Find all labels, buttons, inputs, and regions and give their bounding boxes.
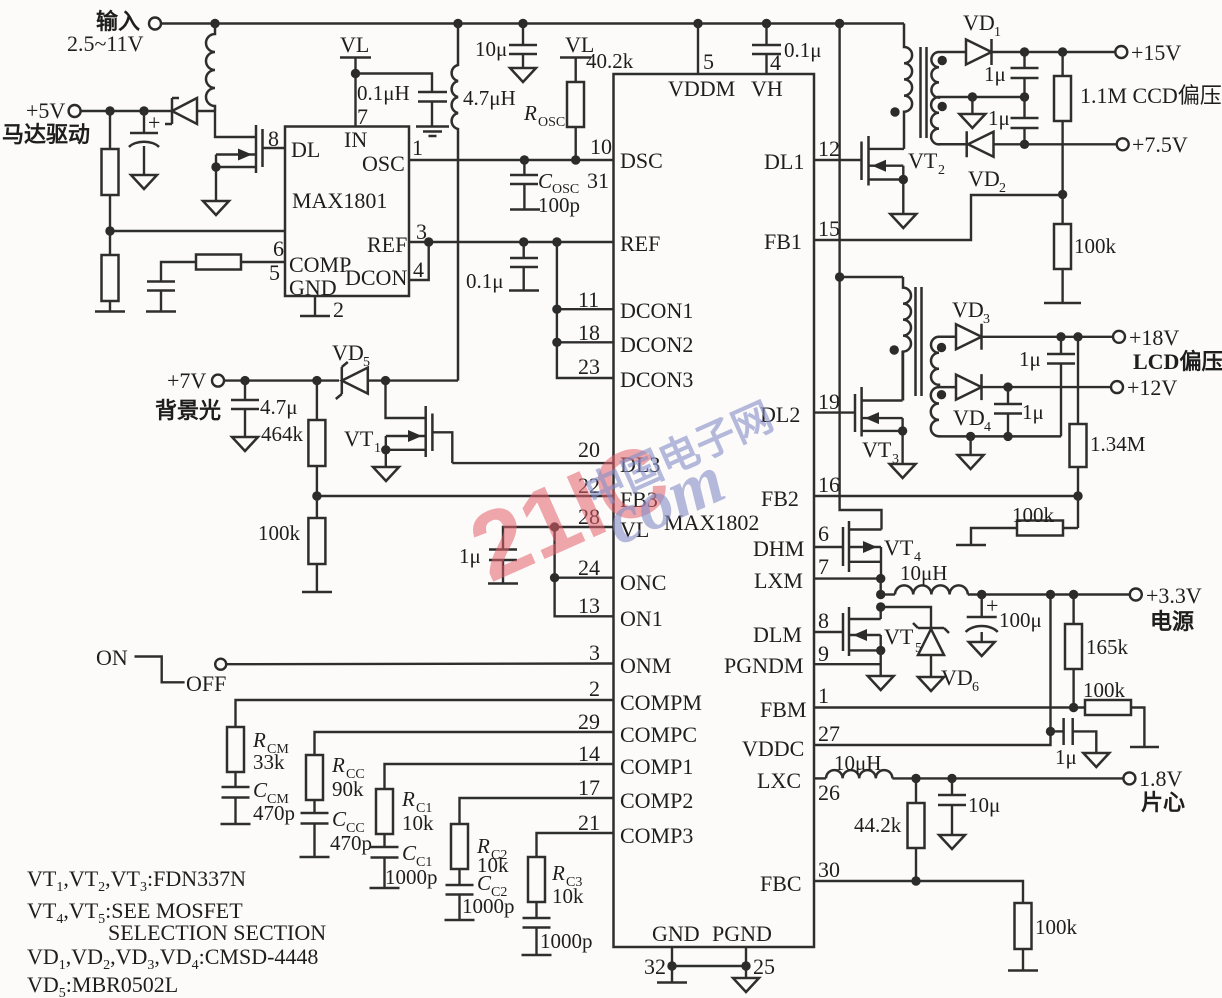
right pin labels xyxy=(724,149,806,896)
svg-text:19: 19 xyxy=(818,389,840,414)
ground (arrow, VT5/PGNDM) xyxy=(868,676,894,690)
transformer T2 secondary upper xyxy=(931,337,956,387)
transistor VT4 xyxy=(814,521,921,579)
svg-text:DCON1: DCON1 xyxy=(620,298,693,323)
capacitor 0.1uH (VL bypass) xyxy=(356,74,448,127)
wire COMPM line xyxy=(236,700,614,727)
pin 4 wire DCON loop xyxy=(409,242,429,280)
svg-text:4: 4 xyxy=(984,420,991,435)
svg-text:VT: VT xyxy=(862,437,892,462)
ground (arrow, VT3) xyxy=(890,464,916,478)
capacitor C+ (electrolytic on +5V) xyxy=(129,110,160,173)
transistor VT2 xyxy=(814,136,945,214)
svg-text:1μ: 1μ xyxy=(1055,745,1077,769)
resistor RC2 10k xyxy=(451,824,509,885)
svg-text:1.1M CCD偏压: 1.1M CCD偏压 xyxy=(1080,83,1222,108)
svg-text:18: 18 xyxy=(578,320,600,345)
svg-text:VL: VL xyxy=(340,32,369,57)
svg-text:44.2k: 44.2k xyxy=(854,813,902,837)
svg-text:33k: 33k xyxy=(253,750,285,774)
wire DCON tie line xyxy=(557,242,614,378)
resistor Rosc 40.2k xyxy=(523,49,634,160)
svg-text:23: 23 xyxy=(578,354,600,379)
svg-text:DSC: DSC xyxy=(620,148,663,173)
svg-text:1: 1 xyxy=(818,683,829,708)
ground (earth bars, 0.1uH cap) xyxy=(416,127,449,137)
wire DL3 line xyxy=(452,462,613,464)
transistor Q1 (motor boost MOSFET) xyxy=(211,111,285,201)
svg-text:7: 7 xyxy=(357,104,368,129)
svg-text:VH: VH xyxy=(751,76,783,101)
svg-text:SELECTION SECTION: SELECTION SECTION xyxy=(108,920,326,945)
svg-text:40.2k: 40.2k xyxy=(586,49,634,73)
svg-text:REF: REF xyxy=(367,232,407,257)
svg-text:100k: 100k xyxy=(1035,915,1078,939)
svg-text:GND: GND xyxy=(289,275,337,300)
svg-text:165k: 165k xyxy=(1086,635,1129,659)
svg-text:1.34M: 1.34M xyxy=(1090,432,1146,456)
svg-text:32: 32 xyxy=(644,954,666,979)
capacitor 10u (1.8V) xyxy=(938,774,1000,849)
svg-text:ONC: ONC xyxy=(620,570,666,595)
svg-text:10k: 10k xyxy=(402,811,434,835)
svg-text:100k: 100k xyxy=(1083,678,1126,702)
svg-text:PGNDM: PGNDM xyxy=(724,653,803,678)
wire OSC/DSC line xyxy=(409,159,614,161)
svg-text:ON1: ON1 xyxy=(620,606,663,631)
pin 2 wire GND xyxy=(300,296,344,322)
svg-text:R: R xyxy=(523,101,537,125)
transformer T2 primary xyxy=(840,277,911,401)
svg-text:4.7μH: 4.7μH xyxy=(463,86,516,110)
svg-text:30: 30 xyxy=(818,857,840,882)
svg-text:2: 2 xyxy=(938,163,945,178)
pin 25 wire PGND xyxy=(672,947,775,992)
diode VD2 xyxy=(939,131,1117,196)
wire +5V line xyxy=(81,110,172,112)
op-amp U1 MAX1801 box xyxy=(285,127,409,301)
svg-text:31: 31 xyxy=(587,168,609,193)
node 输入 input terminal xyxy=(67,9,161,56)
capacitor 10u (input bypass) xyxy=(475,24,537,69)
svg-text:VD: VD xyxy=(963,10,995,35)
inductor 10uH (LXM) xyxy=(876,561,1130,599)
svg-text:4.7μ: 4.7μ xyxy=(260,395,298,419)
svg-text:+5V: +5V xyxy=(26,98,65,123)
junction dots on top rail xyxy=(210,19,219,28)
svg-text:21: 21 xyxy=(578,810,600,835)
svg-text:15: 15 xyxy=(818,216,840,241)
svg-text:R: R xyxy=(401,787,415,811)
ground (arrow, VT1) xyxy=(373,467,399,481)
svg-text:2: 2 xyxy=(333,297,344,322)
capacitor CC2 1000p xyxy=(445,871,515,920)
ground (bar, R2) xyxy=(95,310,125,313)
svg-text:VD: VD xyxy=(953,405,985,430)
svg-text:1000p: 1000p xyxy=(462,894,515,918)
svg-text:COMP3: COMP3 xyxy=(620,823,693,848)
svg-text:27: 27 xyxy=(818,721,840,746)
capacitor 1u (lower) xyxy=(988,97,1039,149)
svg-text:COMP1: COMP1 xyxy=(620,754,693,779)
svg-text:6: 6 xyxy=(972,680,979,695)
svg-text:1μ: 1μ xyxy=(1022,400,1044,424)
svg-text:0.1μH: 0.1μH xyxy=(357,81,410,105)
capacitor C2 (COMP to gnd) xyxy=(147,282,175,312)
transformer T1 secondary upper xyxy=(931,52,1024,98)
svg-text:C: C xyxy=(332,807,347,831)
svg-text:26: 26 xyxy=(818,780,840,805)
wire VDDC line xyxy=(814,595,1051,746)
wire LXM line xyxy=(814,577,881,579)
diode VD4 xyxy=(953,374,1111,435)
switch ON/OFF xyxy=(96,645,226,696)
svg-text:FB1: FB1 xyxy=(764,229,802,254)
svg-text:+3.3V: +3.3V xyxy=(1146,583,1202,608)
svg-text:GND: GND xyxy=(652,921,700,946)
wire FB3 line xyxy=(317,495,614,497)
ground (arrow, VT2) xyxy=(890,214,916,228)
svg-text:4: 4 xyxy=(413,257,424,282)
watermark chinese xyxy=(579,395,780,517)
wire PGNDM line xyxy=(814,650,881,676)
diode VD3 xyxy=(952,297,1113,350)
svg-text:VD: VD xyxy=(952,297,984,322)
diode VD1 xyxy=(963,10,1115,65)
svg-text:VDDM: VDDM xyxy=(668,76,735,101)
svg-text:COMPC: COMPC xyxy=(620,722,697,747)
svg-text:17: 17 xyxy=(578,775,600,800)
svg-text:3: 3 xyxy=(983,312,990,327)
svg-text:0.1μ: 0.1μ xyxy=(466,269,504,293)
svg-text:3: 3 xyxy=(589,640,600,665)
svg-text:25: 25 xyxy=(753,954,775,979)
svg-text:2.5~11V: 2.5~11V xyxy=(67,31,144,56)
wire FB1 sense xyxy=(814,195,1063,240)
wire divider tap to MAX1801 pin6 xyxy=(110,230,285,232)
svg-text:13: 13 xyxy=(578,593,600,618)
ground (bar, 100k) xyxy=(302,591,332,594)
svg-text:IN: IN xyxy=(344,127,367,152)
svg-text:9: 9 xyxy=(818,641,829,666)
svg-text:1000p: 1000p xyxy=(385,865,438,889)
svg-text:COMPM: COMPM xyxy=(620,690,702,715)
resistor 1.34M xyxy=(1070,337,1146,496)
capacitor 1u (VL bypass) xyxy=(459,544,518,584)
transformer T2 secondary lower xyxy=(931,387,1061,436)
svg-text:10μ: 10μ xyxy=(475,37,507,61)
wire ONC/ON1 tie xyxy=(555,527,614,616)
svg-text:1: 1 xyxy=(994,25,1001,40)
resistor 44.2k xyxy=(854,774,925,881)
capacitor CCM 470p xyxy=(221,778,296,825)
svg-text:10μH: 10μH xyxy=(900,561,947,585)
transistor VT5 xyxy=(814,602,922,656)
svg-text:FBM: FBM xyxy=(760,697,806,722)
wire VH feed branch xyxy=(840,24,882,530)
svg-text:6: 6 xyxy=(273,236,284,261)
svg-text:12: 12 xyxy=(818,136,840,161)
svg-text:10μH: 10μH xyxy=(834,751,881,775)
svg-text:+: + xyxy=(986,593,998,618)
node +7V terminal xyxy=(155,368,224,423)
svg-text:100k: 100k xyxy=(258,521,301,545)
resistor 100k (FB3 lower) xyxy=(258,496,325,592)
svg-text:1.8V: 1.8V xyxy=(1139,766,1183,791)
resistor 1.1M xyxy=(1054,52,1222,194)
capacitor 4.7u xyxy=(231,381,298,451)
svg-text:LXM: LXM xyxy=(754,568,803,593)
svg-text:MAX1801: MAX1801 xyxy=(292,188,387,213)
resistor 165k xyxy=(1065,590,1129,708)
svg-text:ONM: ONM xyxy=(620,653,671,678)
svg-text:VD5:MBR0502L: VD5:MBR0502L xyxy=(27,972,178,998)
svg-text:DHM: DHM xyxy=(753,536,804,561)
transformer T1 primary xyxy=(890,24,912,149)
svg-text:电源: 电源 xyxy=(1150,609,1194,634)
svg-text:1μ: 1μ xyxy=(1019,347,1041,371)
svg-text:LXC: LXC xyxy=(757,768,801,793)
inductor 4.7uH xyxy=(452,24,516,381)
resistor 100k (FBM, horizontal) xyxy=(1083,678,1159,747)
svg-text:VT1,VT2,VT3:FDN337N: VT1,VT2,VT3:FDN337N xyxy=(27,866,246,895)
ground (arrow, 10u) xyxy=(510,68,536,82)
svg-text:1: 1 xyxy=(374,441,381,456)
capacitor 1u (+12V) xyxy=(994,387,1044,441)
svg-text:R: R xyxy=(551,861,565,885)
svg-text:470p: 470p xyxy=(253,801,295,825)
pin 4 wire VH + capacitor 0.1u xyxy=(752,24,822,76)
transistor VT1 xyxy=(344,381,452,467)
transformer T1 core xyxy=(921,47,927,138)
node +15V terminal xyxy=(1115,40,1181,65)
svg-text:VD1,VD2,VD3,VD4:CMSD-4448: VD1,VD2,VD3,VD4:CMSD-4448 xyxy=(27,944,318,973)
svg-text:16: 16 xyxy=(818,472,840,497)
node +5V terminal xyxy=(2,98,90,147)
inductor 10uH (LXC) xyxy=(814,751,1123,778)
svg-text:C: C xyxy=(402,841,417,865)
capacitor 100u (electrolytic +3.3V) xyxy=(966,590,1042,656)
resistor R3 (COMP series, horizontal) xyxy=(161,255,285,282)
svg-text:10k: 10k xyxy=(552,884,584,908)
resistor RCM 33k xyxy=(227,727,289,787)
svg-text:+7V: +7V xyxy=(167,368,206,393)
svg-text:+18V: +18V xyxy=(1129,325,1179,350)
node +7.5V terminal xyxy=(1117,132,1188,157)
resistor 100k (FBC) xyxy=(1008,903,1078,971)
svg-text:VT: VT xyxy=(884,535,914,560)
svg-text:片心: 片心 xyxy=(1141,790,1185,815)
node +12V terminal xyxy=(1111,375,1177,400)
svg-text:VT: VT xyxy=(908,148,938,173)
ground (arrow, T1 mid tap) xyxy=(959,92,985,128)
capacitor 0.1u (REF bypass) xyxy=(466,242,539,293)
op-amp U2 MAX1802 box xyxy=(614,74,815,947)
svg-text:VD: VD xyxy=(968,166,1000,191)
capacitor CC1 1000p xyxy=(370,841,438,889)
svg-text:DL1: DL1 xyxy=(764,149,804,174)
capacitor CC3 1000p xyxy=(522,918,593,955)
svg-text:11: 11 xyxy=(578,287,599,312)
diode VD7 (schottky to +5V) xyxy=(165,98,215,124)
svg-text:+12V: +12V xyxy=(1127,375,1177,400)
svg-text:+15V: +15V xyxy=(1131,40,1181,65)
resistor RC3 10k xyxy=(528,857,584,918)
capacitor CCC 470p xyxy=(300,807,373,857)
node +3.3V terminal xyxy=(1130,583,1202,634)
svg-text:VT: VT xyxy=(884,624,914,649)
inductor L1 (motor boost coil) xyxy=(206,24,215,112)
resistor 100k (FB1 divider) xyxy=(1044,194,1117,303)
svg-text:470p: 470p xyxy=(330,831,372,855)
svg-text:0.1μ: 0.1μ xyxy=(784,38,822,62)
svg-text:FBC: FBC xyxy=(760,871,802,896)
ground (arrow, Q1 source) xyxy=(203,201,229,215)
svg-text:1μ: 1μ xyxy=(988,106,1010,130)
capacitor 1u (+15V upper) xyxy=(984,52,1039,102)
svg-text:1: 1 xyxy=(412,135,423,160)
svg-text:ON: ON xyxy=(96,645,128,670)
ground (arrow, T2 return) xyxy=(958,432,984,469)
svg-text:DCON2: DCON2 xyxy=(620,332,693,357)
svg-text:5: 5 xyxy=(703,49,714,74)
node VL (Rosc pullup) xyxy=(560,32,594,82)
svg-text:COMP: COMP xyxy=(289,252,351,277)
svg-text:VD: VD xyxy=(941,665,973,690)
wire COMPC line xyxy=(315,732,614,755)
wire top rail xyxy=(162,22,905,24)
node VL (MAX1801 supply) xyxy=(340,32,371,78)
svg-text:DLM: DLM xyxy=(753,622,802,647)
svg-text:8: 8 xyxy=(818,608,829,633)
svg-text:7: 7 xyxy=(818,554,829,579)
svg-text:100k: 100k xyxy=(1012,503,1055,527)
capacitor 1u (+18V) xyxy=(1019,337,1075,437)
node 1.8V terminal xyxy=(1123,766,1185,815)
resistor 464k xyxy=(261,381,325,496)
wire FBC line xyxy=(814,881,1023,903)
svg-text:COMP2: COMP2 xyxy=(620,788,693,813)
svg-text:90k: 90k xyxy=(332,777,364,801)
ground (bar, C2) xyxy=(146,310,176,313)
wire COMP3 line xyxy=(537,833,614,857)
right pin numbers xyxy=(818,136,840,882)
wire FB2 line xyxy=(814,495,1078,497)
svg-text:DCON3: DCON3 xyxy=(620,367,693,392)
svg-text:5: 5 xyxy=(363,355,370,370)
svg-text:1μ: 1μ xyxy=(984,62,1006,86)
left pin numbers xyxy=(578,134,612,835)
wire ONM line xyxy=(226,662,613,665)
wire COMP1 line xyxy=(385,764,614,789)
resistor RC1 10k xyxy=(376,787,434,847)
svg-text:REF: REF xyxy=(620,231,660,256)
pin 5 wire VDDM xyxy=(697,24,699,75)
ground (arrow, electrolytic) xyxy=(131,173,157,189)
svg-text:C: C xyxy=(253,778,268,802)
svg-text:OSC: OSC xyxy=(362,151,405,176)
svg-text:背景光: 背景光 xyxy=(155,398,221,423)
resistor 100k (FB2, horizontal) xyxy=(956,496,1078,545)
pin 7 wire IN xyxy=(354,74,356,127)
svg-text:10μ: 10μ xyxy=(968,793,1000,817)
svg-text:VDDC: VDDC xyxy=(742,736,804,761)
resistor R2 (lower divider) xyxy=(102,231,119,311)
svg-text:100μ: 100μ xyxy=(999,608,1042,632)
watermark com xyxy=(594,441,735,560)
transistor VT3 xyxy=(814,351,907,467)
svg-text:OSC: OSC xyxy=(538,115,565,130)
wire COMP2 line xyxy=(460,798,614,824)
wire VL pin line xyxy=(503,527,614,550)
diode VD5 xyxy=(332,340,458,399)
svg-text:R: R xyxy=(331,753,345,777)
svg-text:6: 6 xyxy=(818,521,829,546)
capacitor 1u (VDDC bypass, horizontal) xyxy=(1051,718,1110,769)
svg-text:5: 5 xyxy=(269,260,280,285)
svg-text:100p: 100p xyxy=(538,193,580,217)
svg-text:+7.5V: +7.5V xyxy=(1132,132,1188,157)
svg-text:+: + xyxy=(148,110,160,135)
wire +7V line xyxy=(224,379,339,381)
svg-text:29: 29 xyxy=(578,709,600,734)
svg-text:DL: DL xyxy=(291,137,320,162)
svg-text:OFF: OFF xyxy=(186,671,226,696)
svg-text:R: R xyxy=(252,728,266,752)
svg-text:VT: VT xyxy=(344,426,374,451)
svg-text:4: 4 xyxy=(770,50,781,75)
svg-text:2: 2 xyxy=(589,676,600,701)
transformer T2 core xyxy=(916,287,922,396)
resistor R1 (upper divider) xyxy=(102,111,119,230)
svg-text:VD: VD xyxy=(332,340,364,365)
left pin labels xyxy=(620,148,702,848)
pin 32 wire GND xyxy=(644,947,687,983)
wire REF line xyxy=(409,241,614,243)
svg-text:PGND: PGND xyxy=(712,921,772,946)
capacitor Cosc 100p xyxy=(510,160,580,217)
transformer T1 secondary lower xyxy=(931,97,967,144)
svg-text:1000p: 1000p xyxy=(540,929,593,953)
svg-text:10: 10 xyxy=(590,134,612,159)
svg-text:8: 8 xyxy=(268,126,279,151)
svg-text:LCD偏压: LCD偏压 xyxy=(1133,349,1222,374)
diode VD6 (zener) xyxy=(881,607,979,695)
svg-text:C: C xyxy=(538,169,553,193)
svg-text:DCON: DCON xyxy=(345,265,407,290)
svg-text:C: C xyxy=(477,871,492,895)
svg-text:14: 14 xyxy=(578,741,600,766)
svg-text:100k: 100k xyxy=(1074,234,1117,258)
watermark 21IC xyxy=(455,422,684,602)
node +18V terminal xyxy=(1113,325,1222,374)
svg-text:2: 2 xyxy=(999,181,1006,196)
svg-text:马达驱动: 马达驱动 xyxy=(2,122,90,147)
wire FBM line xyxy=(814,706,1085,708)
svg-text:FB2: FB2 xyxy=(761,486,799,511)
resistor RCC 90k xyxy=(306,753,365,813)
svg-text:464k: 464k xyxy=(261,422,304,446)
